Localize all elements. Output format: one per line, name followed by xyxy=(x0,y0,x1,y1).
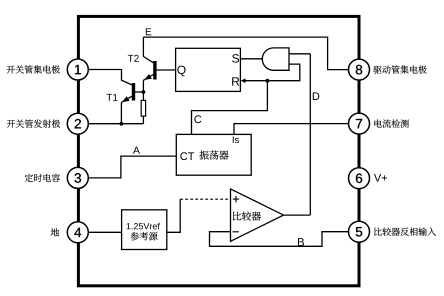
voltage reference block U5 xyxy=(122,210,167,250)
wire AND gate input from oscillator / R net xyxy=(245,64,300,81)
junction R net / oscillator node C xyxy=(266,79,270,83)
oscillator name label xyxy=(199,150,228,159)
pin 6 name: V+ xyxy=(374,174,387,182)
transistor T2 xyxy=(143,37,175,92)
wire node B: pin 5 to comparator inverting input xyxy=(210,232,350,247)
wire node E: T2 collector to pin 8 xyxy=(143,37,349,70)
node Is label xyxy=(233,136,239,143)
wire pin 1 to T1 collector xyxy=(88,70,133,86)
wire pin 4 to Vref xyxy=(88,231,121,233)
AND gate U2 (mirrored) xyxy=(262,48,289,70)
Vref name label xyxy=(130,232,157,240)
IC package border box xyxy=(78,16,359,285)
wire Vref output xyxy=(167,199,180,232)
node A label xyxy=(133,147,140,154)
pin 3 name: timing capacitor xyxy=(25,174,60,182)
wire T1 emitter to pin 2 net xyxy=(120,102,122,123)
resistor R1 (T2 emitter to pin 2 net) xyxy=(141,100,145,116)
wire base node to resistor xyxy=(142,92,144,100)
Vref value label xyxy=(127,223,160,230)
pin 5 name: comparator inverting input xyxy=(374,227,436,235)
pin 1 name: switch collector xyxy=(7,65,60,73)
wire node Is: oscillator to pin 7 xyxy=(234,124,349,135)
pin 3 xyxy=(67,167,88,188)
transistor T2 label xyxy=(128,55,139,62)
comparator - input sign xyxy=(233,231,239,233)
pin 7 xyxy=(349,113,370,134)
pin 1 xyxy=(67,59,88,80)
oscillator block U3 xyxy=(176,134,251,175)
pin 8 name: driver collector xyxy=(373,65,426,73)
wire node A: pin 3 to oscillator CT xyxy=(88,156,176,178)
comparator U4 xyxy=(231,189,284,241)
node C label xyxy=(194,115,201,123)
wire S output to AND gate xyxy=(240,58,262,60)
pin 7 name: current sense xyxy=(374,119,408,127)
pin 2 name: switch emitter xyxy=(7,120,60,128)
pin 4 name: ground xyxy=(51,228,59,236)
pin 2 xyxy=(67,113,88,134)
oscillator CT pin label xyxy=(180,152,194,160)
transistor T1 xyxy=(121,83,143,102)
transistor T1 label xyxy=(107,94,118,101)
pin 8 xyxy=(349,59,370,80)
wire pin 2 emitter net xyxy=(88,123,143,125)
latch Q output label xyxy=(177,66,185,77)
pin 6 xyxy=(349,168,370,189)
wire AND gate input from node D xyxy=(289,53,310,55)
node B label xyxy=(298,238,304,246)
flip-flop latch U1 xyxy=(176,48,241,91)
comparator name label xyxy=(233,212,261,221)
latch S input label xyxy=(232,54,239,62)
latch R input arrowhead xyxy=(241,78,246,83)
wire node D: comparator output vertical xyxy=(309,54,311,215)
comparator + input sign xyxy=(233,196,239,202)
wire comparator output to node D xyxy=(284,214,311,216)
latch R input label xyxy=(232,77,239,85)
node D label xyxy=(313,92,320,100)
wire resistor to pin 2 net xyxy=(142,116,144,124)
junction T1 emitter / pin 2 xyxy=(120,122,124,126)
wire Vref to comparator + (dashed) xyxy=(180,198,230,200)
pin 5 xyxy=(349,221,370,242)
pin 4 xyxy=(67,222,88,243)
wire node C: oscillator output to R net xyxy=(192,81,268,135)
node E label xyxy=(146,28,151,35)
junction T2 emitter / T1 base / resistor xyxy=(142,90,146,94)
